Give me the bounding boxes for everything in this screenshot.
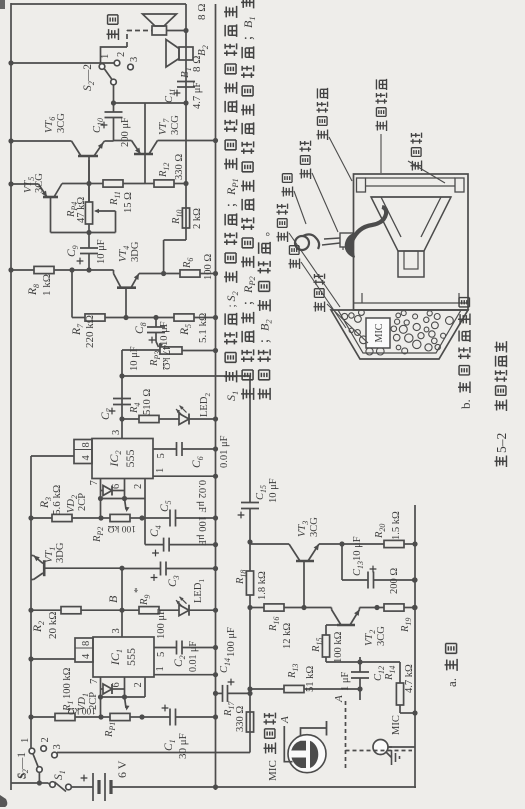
speaker B2 monitor bbox=[179, 47, 193, 60]
svg-text:2: 2 bbox=[116, 52, 127, 57]
svg-text:10 μF: 10 μF bbox=[159, 321, 170, 346]
resistor R12 330 bbox=[145, 183, 154, 185]
svg-text:;: ; bbox=[226, 304, 238, 307]
wire output to RP3 bbox=[122, 349, 160, 351]
svg-text:。: 。 bbox=[260, 225, 272, 237]
speaker cone cross-section bbox=[371, 197, 451, 251]
svg-text:3: 3 bbox=[129, 57, 140, 62]
LED1 indicator bbox=[179, 605, 189, 616]
capacitor C3 100uF bbox=[122, 568, 161, 570]
wire output line bbox=[185, 4, 187, 240]
label 振动膜 bbox=[313, 301, 325, 312]
resistor R17 330 bbox=[246, 712, 253, 732]
svg-text:47 kΩ: 47 kΩ bbox=[160, 345, 171, 370]
wire MIC riser bbox=[388, 746, 415, 748]
svg-text:1 μF: 1 μF bbox=[340, 671, 351, 691]
svg-text:8: 8 bbox=[81, 641, 92, 646]
svg-text:2 kΩ: 2 kΩ bbox=[192, 208, 203, 229]
capacitor C12 1uF input bbox=[359, 678, 361, 700]
wire S2-1 contact3 line bbox=[57, 752, 250, 754]
IC U1 555 body bbox=[93, 637, 154, 677]
resistor R9* select bbox=[122, 609, 139, 611]
svg-text:1: 1 bbox=[100, 54, 111, 59]
wire pin6 node bbox=[124, 677, 126, 697]
capacitor C2 0.01uF on pin5 bbox=[154, 647, 177, 649]
wire VT5 base bbox=[50, 197, 52, 233]
svg-text:1: 1 bbox=[20, 738, 31, 743]
svg-text:3CG: 3CG bbox=[170, 115, 181, 135]
bucket cone shell bbox=[331, 310, 468, 359]
capacitor C1 30uF bbox=[142, 716, 170, 718]
diaphragm clamp tabs bbox=[357, 178, 366, 192]
node R1/RP1/VD1 bbox=[98, 714, 103, 719]
svg-text:100 kΩ: 100 kΩ bbox=[62, 667, 73, 699]
svg-text:1: 1 bbox=[155, 468, 166, 473]
node RP1/C1 bbox=[139, 714, 144, 719]
svg-text:100 kΩ: 100 kΩ bbox=[333, 631, 344, 663]
svg-text:；: ； bbox=[260, 333, 272, 345]
svg-text:4: 4 bbox=[81, 653, 92, 659]
svg-text:3CG: 3CG bbox=[34, 173, 45, 193]
label 振动膜片 bbox=[375, 120, 387, 131]
transistor VT4 3DG bbox=[117, 286, 136, 289]
resistor R6 100 bbox=[139, 273, 180, 275]
capacitor C9 10uF bootstrap bbox=[88, 254, 90, 271]
svg-text:2CP: 2CP bbox=[77, 493, 88, 511]
svg-text:8: 8 bbox=[81, 442, 92, 447]
svg-text:330 Ω: 330 Ω bbox=[174, 154, 185, 180]
resistor R3 5.6k bbox=[31, 517, 52, 519]
transistor VT1 3DG bbox=[44, 567, 122, 569]
switch S2-1 bbox=[38, 773, 40, 784]
svg-text:1 kΩ: 1 kΩ bbox=[41, 274, 53, 296]
wire IC2 pin3 output bbox=[121, 350, 123, 439]
svg-text:0.02 μF: 0.02 μF bbox=[196, 480, 207, 513]
resistor R15 100k bbox=[326, 661, 360, 663]
svg-text:30 μF: 30 μF bbox=[177, 733, 189, 759]
wire aux drop to listen line bbox=[122, 375, 250, 377]
wire IC1 pin3 output (node B) bbox=[121, 568, 123, 637]
svg-text:10 μF: 10 μF bbox=[352, 536, 363, 561]
svg-text:330 Ω: 330 Ω bbox=[235, 706, 246, 732]
switch S1 bbox=[39, 782, 48, 784]
svg-text:6 V: 6 V bbox=[115, 760, 129, 778]
svg-text:4: 4 bbox=[81, 455, 92, 461]
node RP2/C5 bbox=[139, 515, 144, 520]
wire right rail bbox=[11, 3, 186, 5]
page corner mark bbox=[0, 795, 7, 807]
LED2 indicator bbox=[179, 414, 189, 425]
svg-text:3DG: 3DG bbox=[130, 241, 141, 262]
svg-text:20 kΩ: 20 kΩ bbox=[47, 612, 59, 639]
wire IC2 pin6 node bbox=[124, 479, 126, 499]
svg-text:2: 2 bbox=[133, 682, 144, 687]
diode VD1 2CP bbox=[101, 688, 104, 690]
svg-text:；: ； bbox=[243, 30, 255, 42]
svg-text:3: 3 bbox=[111, 430, 122, 435]
transistor VT3 3CG bbox=[296, 560, 314, 563]
svg-text:3CG: 3CG bbox=[56, 113, 67, 133]
label 环氧树脂 bbox=[316, 129, 328, 140]
MIC box in foam bbox=[366, 318, 390, 348]
svg-text:15 Ω: 15 Ω bbox=[123, 192, 134, 213]
svg-text:200 μF: 200 μF bbox=[120, 117, 131, 147]
label 防水胶 bbox=[299, 168, 311, 179]
resistor R18 1.8k bbox=[246, 571, 253, 595]
wire contact1 to B1 dashed link bbox=[101, 47, 128, 65]
svg-text:*: * bbox=[132, 588, 144, 594]
svg-text:7: 7 bbox=[89, 480, 100, 485]
svg-text:A: A bbox=[279, 716, 291, 724]
svg-text:5: 5 bbox=[156, 652, 167, 657]
wire VT3 base bbox=[303, 561, 305, 608]
svg-text:5–2: 5–2 bbox=[494, 433, 509, 453]
svg-text:220 kΩ: 220 kΩ bbox=[84, 315, 96, 348]
wire MIC terminal A bbox=[284, 726, 292, 762]
svg-text:510 Ω: 510 Ω bbox=[142, 389, 153, 415]
ground at MIC bbox=[386, 752, 392, 758]
svg-text:200 Ω: 200 Ω bbox=[389, 568, 400, 594]
resistor R14 4.7k bbox=[399, 705, 401, 713]
transistor VT6 3CG bbox=[88, 156, 90, 202]
svg-text:1: 1 bbox=[155, 666, 166, 671]
transistor VT2 3CG bbox=[337, 624, 355, 627]
page corner mark 2 bbox=[0, 0, 5, 9]
svg-text:MIC: MIC bbox=[374, 323, 385, 342]
svg-text:5.1 kΩ: 5.1 kΩ bbox=[197, 313, 209, 343]
resistor R16 12k bbox=[250, 607, 264, 609]
capacitor C8 10uF bbox=[155, 333, 157, 342]
wire VT3 emitter node bbox=[341, 544, 343, 580]
battery GB 6V bbox=[71, 786, 93, 788]
wire switched sub-rail bbox=[30, 456, 32, 751]
svg-text:51 kΩ: 51 kΩ bbox=[305, 666, 316, 692]
potentiometer RP3 47k bbox=[160, 347, 182, 354]
svg-text:B: B bbox=[106, 595, 120, 603]
legend line 2 bbox=[241, 388, 254, 400]
wire ground rail bbox=[215, 4, 217, 790]
foam circles bbox=[402, 348, 408, 354]
node ground-rail tap bbox=[213, 784, 218, 789]
svg-text:8 Ω: 8 Ω bbox=[196, 4, 208, 20]
wire left drop from top rail bbox=[11, 782, 39, 784]
svg-text:555: 555 bbox=[123, 450, 137, 468]
svg-text:3CG: 3CG bbox=[376, 626, 387, 646]
IC U2 555 body bbox=[92, 439, 153, 479]
resistor R8 1k bbox=[11, 269, 34, 271]
potentiometer RP1 100k bbox=[101, 716, 110, 718]
svg-text:b.: b. bbox=[458, 399, 473, 409]
svg-text:100 Ω: 100 Ω bbox=[203, 254, 214, 280]
svg-text:a.: a. bbox=[444, 678, 459, 687]
diode VD2 2CP bbox=[101, 490, 104, 492]
svg-text:555: 555 bbox=[124, 648, 138, 666]
potentiometer RP4 47k bbox=[88, 224, 90, 233]
svg-text:MIC: MIC bbox=[391, 715, 402, 735]
transistor VT5 3CG bbox=[43, 196, 58, 199]
cable gland bbox=[340, 233, 353, 247]
svg-text:1.5 kΩ: 1.5 kΩ bbox=[391, 511, 402, 540]
wire top +V rail bbox=[10, 3, 12, 790]
wire left rail (battery negative) bbox=[111, 786, 416, 788]
svg-text:A: A bbox=[333, 695, 345, 703]
svg-text:7: 7 bbox=[89, 679, 100, 684]
wire VT4 base bbox=[125, 288, 127, 318]
svg-text:2: 2 bbox=[133, 484, 144, 489]
wire pin7 node bbox=[100, 677, 102, 717]
svg-text:5: 5 bbox=[156, 453, 167, 458]
svg-text:；: ； bbox=[226, 197, 238, 209]
capacitor C13 10uF bbox=[342, 579, 368, 581]
wire listen supply line bbox=[249, 713, 251, 733]
speaker magnet bbox=[398, 251, 424, 277]
waterproof glue blob bbox=[345, 233, 356, 258]
switch S2-2 bbox=[111, 79, 117, 85]
underwater unit housing box bbox=[354, 174, 469, 310]
svg-text:3: 3 bbox=[52, 744, 63, 749]
svg-text:10 μF: 10 μF bbox=[268, 478, 279, 503]
svg-text:5.6 kΩ: 5.6 kΩ bbox=[51, 485, 63, 515]
capacitor C14 100uF filter bbox=[213, 691, 218, 696]
node RP4 wiper bbox=[86, 230, 91, 235]
svg-text:1.8 kΩ: 1.8 kΩ bbox=[257, 571, 268, 600]
wire MIC terminal ground bbox=[301, 728, 327, 736]
svg-text:2: 2 bbox=[40, 737, 51, 742]
node C1 ground bbox=[213, 714, 218, 719]
wire pin2 stub bbox=[144, 677, 146, 697]
svg-text:6: 6 bbox=[111, 682, 122, 687]
housing inner wall bbox=[354, 302, 469, 304]
transistor VT7 3CG bbox=[134, 153, 153, 156]
wire bottom return rail bbox=[414, 505, 416, 788]
svg-text:0.01 μF: 0.01 μF bbox=[219, 435, 230, 468]
svg-text:10 μF: 10 μF bbox=[96, 239, 107, 264]
svg-text:S2—2: S2—2 bbox=[82, 64, 96, 91]
capacitor C15 10uF bbox=[241, 508, 259, 510]
wire IC2 pin4/8 riser bbox=[31, 455, 74, 457]
potentiometer RP2 100k bbox=[101, 517, 110, 519]
svg-text:100 kΩ: 100 kΩ bbox=[68, 705, 96, 715]
capacitor C10 200uF output bbox=[113, 118, 115, 142]
label 水下 bbox=[107, 29, 119, 40]
label 泡沫 bbox=[288, 258, 300, 269]
svg-text:4.7 kΩ: 4.7 kΩ bbox=[404, 664, 415, 693]
svg-text:0.01 μF: 0.01 μF bbox=[188, 641, 199, 672]
capacitor C7 10uF coupling bbox=[113, 404, 131, 406]
resistor R1 100k bbox=[31, 716, 55, 718]
figure caption 图5-2 bbox=[495, 456, 507, 467]
capacitor C4 100uF on pin2 node bbox=[144, 499, 146, 545]
node R3/RP2/VD2 bbox=[98, 515, 103, 520]
MIC wiring diagram circle bbox=[288, 735, 326, 773]
label 接线 bbox=[281, 186, 293, 197]
resistor R10 2k bbox=[182, 208, 189, 228]
resistor R13 51k bbox=[250, 688, 284, 690]
label 铁外壳 bbox=[276, 231, 288, 242]
speaker B1 underwater bbox=[152, 26, 167, 35]
svg-text:12 kΩ: 12 kΩ bbox=[282, 623, 293, 649]
svg-text:100 μF: 100 μF bbox=[156, 609, 167, 639]
wire contact2 to rail bbox=[11, 62, 114, 64]
resistor R11 15 bbox=[89, 183, 103, 185]
resistor R20 1.5k bbox=[342, 543, 384, 545]
legend line 3 bbox=[258, 388, 271, 400]
cable curl bbox=[295, 236, 309, 250]
node S1/S2 junction bbox=[37, 780, 42, 785]
svg-text:100 μF: 100 μF bbox=[196, 516, 207, 546]
wire IC2 pin7 node bbox=[100, 479, 102, 519]
svg-text:4.7 μF: 4.7 μF bbox=[192, 82, 203, 109]
svg-text:100 kΩ: 100 kΩ bbox=[108, 523, 136, 533]
svg-text:3: 3 bbox=[111, 628, 122, 633]
capacitor C6 0.01uF on pin5 bbox=[153, 448, 177, 450]
wire IC2 pin2 stub bbox=[144, 479, 146, 499]
wire pole riser bbox=[114, 102, 187, 104]
resistor R7 220k bbox=[72, 317, 85, 319]
resistor R5 5.1k bbox=[174, 314, 194, 321]
svg-text:3CG: 3CG bbox=[309, 517, 320, 537]
svg-text:S2—1: S2—1 bbox=[16, 752, 30, 779]
housing right inner wall bbox=[366, 177, 456, 179]
wire IC1 pin1 ground bbox=[154, 674, 216, 676]
svg-text:6: 6 bbox=[111, 484, 122, 489]
resistor R4 510 bbox=[122, 418, 139, 420]
svg-text:3DG: 3DG bbox=[55, 542, 66, 563]
label 隔离板 bbox=[410, 160, 422, 171]
capacitor C11 4.7uF bbox=[177, 86, 195, 88]
resistor R19 200 bbox=[377, 607, 384, 609]
capacitor C5 0.02uF bbox=[142, 517, 170, 519]
resistor R2 20k pull-up bbox=[31, 609, 61, 611]
wire IC2 pin1 ground bbox=[153, 475, 216, 477]
svg-text:；: ； bbox=[243, 295, 255, 307]
microphone MIC bbox=[373, 740, 388, 755]
svg-text:47 kΩ: 47 kΩ bbox=[76, 197, 87, 223]
svg-text:MIC: MIC bbox=[267, 760, 279, 781]
svg-text:100 μF: 100 μF bbox=[226, 627, 237, 657]
